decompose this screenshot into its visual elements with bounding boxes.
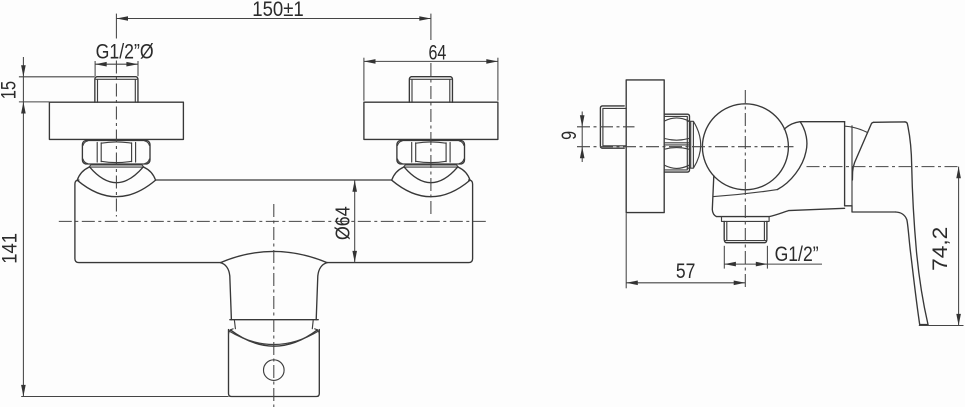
cap lip vertical bbox=[851, 126, 853, 206]
hex nut (side) bbox=[664, 114, 689, 172]
cartridge housing top bbox=[784, 122, 844, 130]
outlet vertical centerline bbox=[744, 90, 746, 291]
right fitting bbox=[364, 14, 498, 217]
escutcheon bell bbox=[392, 167, 470, 197]
valve ball body bbox=[702, 104, 788, 190]
outlet flange bbox=[722, 217, 770, 222]
dimension Ø64 (body diameter) bbox=[332, 180, 357, 262]
stem bottom step line bbox=[230, 319, 318, 321]
dimension 141 (left) bbox=[0, 233, 228, 396]
collar below stem bbox=[234, 320, 313, 328]
SIDE VIEW bbox=[558, 80, 964, 326]
dimension G1/2"Ø (top left nipple) bbox=[95, 40, 153, 76]
dimension 74,2 bbox=[919, 167, 964, 326]
wall nipple (side) bbox=[600, 106, 624, 148]
nipple axis centerline bbox=[577, 126, 635, 128]
mixer body (horizontal cylinder) bbox=[75, 180, 473, 263]
stem left flare bbox=[221, 263, 232, 320]
left fitting bbox=[49, 14, 183, 217]
stem vertical centerline bbox=[273, 204, 275, 407]
wall plate bbox=[364, 102, 498, 139]
handle joint vertical bbox=[844, 122, 846, 206]
svg-text:G1/2”Ø: G1/2”Ø bbox=[96, 40, 154, 63]
outlet thread stub bbox=[724, 221, 767, 242]
handle axis centerline bbox=[807, 166, 960, 168]
fillet to housing bottom bbox=[769, 208, 845, 216]
knob left edge bbox=[852, 122, 873, 180]
under-ball arc bbox=[714, 190, 778, 197]
cup rim horn right bbox=[315, 329, 320, 334]
svg-text:57: 57 bbox=[676, 260, 696, 283]
dimension 9 bbox=[558, 112, 585, 163]
wall plate (side) bbox=[626, 80, 664, 213]
washer ring bbox=[89, 165, 144, 167]
nipple (threaded stub) bbox=[409, 77, 452, 103]
cone joint lens bbox=[687, 121, 701, 168]
nipple (threaded stub) bbox=[95, 77, 138, 103]
cup saddle arc inner bbox=[229, 331, 319, 345]
fitting centerline bbox=[115, 14, 117, 39]
hex nut bbox=[397, 141, 465, 165]
outlet boss left outline bbox=[712, 176, 769, 217]
cup saddle arc outer bbox=[230, 330, 317, 346]
svg-text:141: 141 bbox=[0, 233, 21, 264]
washer ring bbox=[403, 165, 458, 167]
outlet cup housing bbox=[229, 330, 320, 397]
cap cone arc bbox=[845, 126, 868, 132]
stem right flare bbox=[316, 263, 327, 320]
trumpet transition dome to stem bbox=[221, 251, 328, 262]
svg-text:Ø64: Ø64 bbox=[332, 206, 354, 240]
knob top edge bbox=[874, 121, 905, 123]
svg-text:74,2: 74,2 bbox=[929, 227, 952, 271]
hex nut bbox=[82, 141, 150, 165]
dimension 64 (right plate) bbox=[364, 41, 498, 100]
lever outer edge bbox=[905, 122, 928, 325]
wall plate bbox=[49, 102, 183, 139]
svg-text:150±1: 150±1 bbox=[252, 0, 304, 21]
housing boss arc bbox=[777, 122, 807, 190]
cap step + bottom bbox=[845, 206, 896, 212]
cup rim horn left bbox=[229, 329, 234, 334]
fitting centerline bbox=[430, 14, 432, 40]
escutcheon bell bbox=[77, 167, 155, 197]
screw hole circle bbox=[264, 360, 285, 381]
lever inner edge + heel fillet bbox=[896, 212, 920, 325]
FRONT VIEW bbox=[0, 0, 498, 407]
dimension 57 bbox=[626, 213, 745, 288]
svg-text:G1/2”: G1/2” bbox=[775, 243, 819, 266]
lever tip bottom bbox=[920, 324, 928, 326]
valve axis centerline bbox=[577, 146, 794, 148]
svg-text:64: 64 bbox=[429, 41, 447, 64]
dimension 150±1 bbox=[116, 0, 431, 21]
dimension 15 (left) bbox=[0, 57, 95, 397]
svg-text:9: 9 bbox=[558, 131, 581, 140]
dimension G1/2" (outlet) bbox=[724, 243, 822, 268]
svg-text:15: 15 bbox=[0, 81, 21, 99]
body horizontal centerline bbox=[59, 220, 489, 222]
